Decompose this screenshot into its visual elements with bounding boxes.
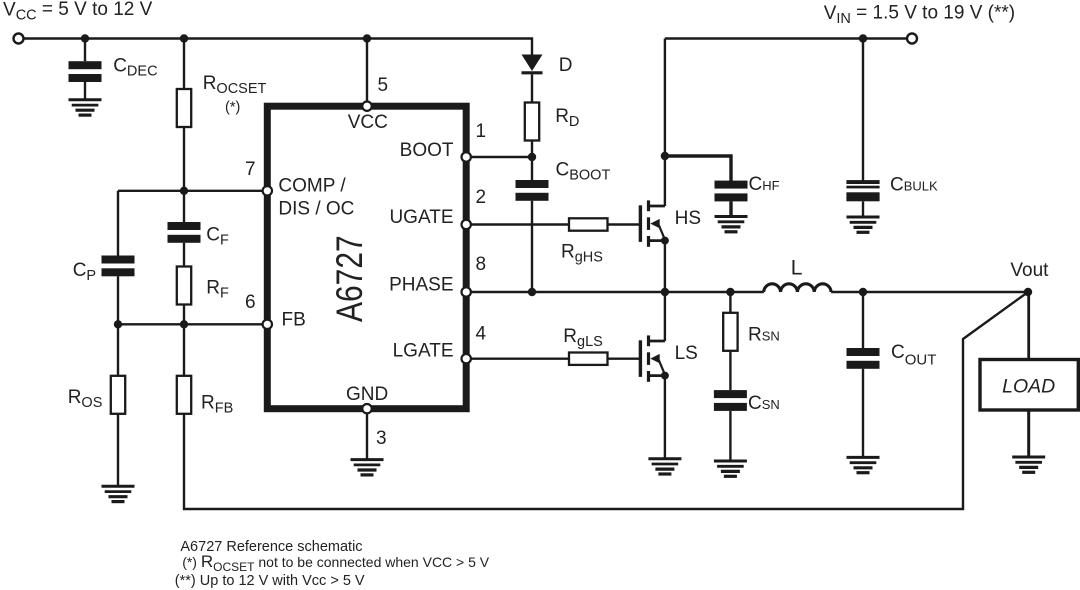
svg-text:VIN = 1.5 V to 19 V (**): VIN = 1.5 V to 19 V (**) xyxy=(824,3,1015,28)
svg-text:(*): (*) xyxy=(225,100,240,116)
svg-text:CDEC: CDEC xyxy=(113,56,157,80)
svg-text:Vout: Vout xyxy=(1010,260,1049,281)
svg-text:CHF: CHF xyxy=(749,174,780,195)
svg-text:CBOOT: CBOOT xyxy=(556,160,611,184)
svg-text:RSN: RSN xyxy=(748,325,780,346)
svg-text:RgHS: RgHS xyxy=(561,242,603,266)
svg-text:(*) ROCSET not to be connected: (*) ROCSET not to be connected when VCC … xyxy=(182,552,490,574)
svg-text:6: 6 xyxy=(245,292,256,313)
svg-text:VCC: VCC xyxy=(348,112,388,133)
svg-text:RgLS: RgLS xyxy=(563,326,603,350)
svg-text:CF: CF xyxy=(206,225,229,249)
svg-text:BOOT: BOOT xyxy=(400,140,454,161)
svg-text:RF: RF xyxy=(206,277,229,301)
svg-text:A6727: A6727 xyxy=(329,235,371,322)
svg-text:COUT: COUT xyxy=(891,342,936,369)
svg-text:1: 1 xyxy=(476,121,487,142)
svg-text:(**) Up to 12 V with Vcc > 5 V: (**) Up to 12 V with Vcc > 5 V xyxy=(175,573,365,589)
svg-text:LS: LS xyxy=(675,343,698,364)
svg-text:GND: GND xyxy=(346,384,388,405)
svg-text:3: 3 xyxy=(376,428,387,449)
svg-text:CBULK: CBULK xyxy=(890,175,938,196)
svg-text:2: 2 xyxy=(476,187,487,208)
svg-text:PHASE: PHASE xyxy=(389,274,453,295)
svg-text:D: D xyxy=(559,55,573,76)
svg-text:ROCSET: ROCSET xyxy=(203,73,267,97)
svg-text:5: 5 xyxy=(378,75,389,96)
svg-text:HS: HS xyxy=(675,208,701,229)
svg-text:7: 7 xyxy=(245,159,256,180)
svg-text:CSN: CSN xyxy=(748,393,780,414)
svg-text:CP: CP xyxy=(73,260,96,284)
svg-text:RD: RD xyxy=(555,106,579,130)
svg-text:RFB: RFB xyxy=(201,393,233,417)
svg-text:DIS / OC: DIS / OC xyxy=(278,198,354,219)
svg-text:4: 4 xyxy=(476,324,487,345)
svg-text:FB: FB xyxy=(282,310,306,331)
svg-text:ROS: ROS xyxy=(68,387,103,411)
svg-text:COMP /: COMP / xyxy=(278,175,346,196)
svg-text:8: 8 xyxy=(476,254,487,275)
svg-text:UGATE: UGATE xyxy=(389,207,453,228)
svg-text:LOAD: LOAD xyxy=(1002,375,1055,397)
svg-text:VCC = 5 V to 12 V: VCC = 5 V to 12 V xyxy=(3,0,153,24)
svg-text:L: L xyxy=(791,257,803,280)
svg-text:LGATE: LGATE xyxy=(393,341,454,362)
